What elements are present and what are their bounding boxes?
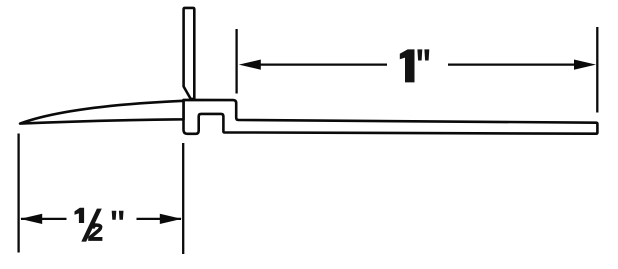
1/2" dimension line right segment — [137, 218, 182, 220]
1/2" left arrowhead — [20, 214, 42, 224]
label 1/2" : inch double-prime — [112, 211, 124, 220]
label 1/2" : small digit 2 — [88, 223, 102, 241]
1/2" right arrowhead — [160, 214, 182, 224]
label 1" : digit 1 — [400, 49, 415, 82]
label 1/2" : small digit 1 — [75, 208, 85, 223]
1" left arrowhead — [239, 60, 261, 70]
1/2" dimension line left segment — [21, 218, 67, 220]
1/2" dimension: right extension line — [182, 143, 184, 254]
1" dimension line left segment — [250, 63, 387, 65]
1/2" dimension: left extension line — [17, 134, 19, 253]
1" right arrowhead — [574, 60, 596, 70]
label 1/2" : fraction slash — [81, 209, 102, 242]
1" dimension line right segment — [448, 63, 586, 65]
profile: main body, groove and 1-inch leg — [184, 100, 598, 134]
1" dimension: right extension line — [596, 27, 598, 113]
1" dimension: left extension line — [235, 29, 237, 94]
label 1" : inch double-prime — [417, 49, 429, 60]
profile: tapered mud wing — [20, 101, 184, 124]
profile: tear-away fin (top spline) — [184, 8, 195, 99]
